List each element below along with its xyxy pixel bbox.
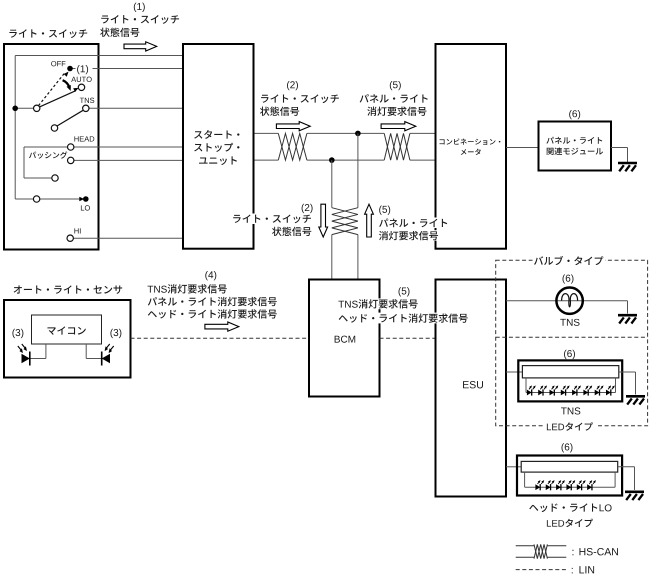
ground for panel light module	[618, 162, 637, 165]
TNS LED module outer box	[518, 360, 622, 401]
LED 4 of headlight module	[566, 484, 571, 490]
legend LIN dashed line	[516, 569, 567, 571]
LED 5 of headlight module	[577, 484, 582, 490]
combination meter box	[436, 44, 507, 249]
wire: switch common top line to start-stop unit	[15, 55, 182, 57]
HS-CAN twisted pair symbol left	[278, 133, 307, 160]
label headlight LO	[529, 503, 611, 512]
arrow (2) right	[276, 122, 310, 131]
wire: LO lever line	[37, 198, 80, 200]
wire: L-shape to lower passing terminal	[23, 147, 25, 178]
wire: TNS contact to start-stop unit	[86, 107, 183, 109]
start-stop unit box	[183, 44, 254, 249]
label (4) signals	[205, 271, 216, 280]
wire: ESU to TNS LED module	[506, 371, 522, 373]
label ESU	[463, 381, 483, 388]
OFF contact dot	[67, 66, 73, 72]
wire: passing contact to start-stop unit	[71, 159, 183, 161]
LED 7 of TNS module	[595, 390, 600, 396]
junction dot top line	[355, 131, 361, 137]
wire: HS-CAN top line	[255, 132, 279, 134]
second stage lever circle	[51, 125, 57, 131]
label TNS LED	[561, 407, 580, 414]
LED 1 of headlight module	[535, 484, 540, 490]
label LED type (on dashed edge)	[543, 421, 597, 432]
junction dot on left bus	[12, 106, 18, 112]
label BCM	[335, 336, 356, 343]
ESU box	[436, 280, 507, 497]
LED 8 of TNS module	[606, 390, 611, 396]
passing contact circle	[68, 157, 74, 163]
LED 3 of TNS module	[550, 390, 555, 396]
label (3) right	[110, 329, 121, 338]
switch lever: TNS second stage	[57, 110, 84, 126]
label (1) at OFF contact	[76, 63, 93, 74]
arrow (5) up	[365, 204, 374, 237]
label LO	[81, 205, 90, 210]
TNS bulb symbol	[556, 288, 582, 314]
auto light sensor box	[4, 300, 131, 378]
bulb filament	[562, 294, 578, 307]
label LED type below	[547, 519, 593, 527]
label (5) TNS off request signals	[399, 287, 410, 296]
LED 4 of TNS module	[561, 390, 566, 396]
wire: switch left vertical bus	[14, 56, 16, 200]
wire: HS-CAN vertical right	[357, 133, 359, 207]
label TNS bulb	[560, 319, 579, 326]
wire: bus to LO lever	[15, 198, 34, 200]
LED 6 of headlight module	[587, 484, 592, 490]
HI contact circle	[67, 235, 73, 241]
label (2) status signal down	[302, 204, 313, 213]
junction dot bottom line	[329, 157, 335, 163]
label (5) panel light off request signal	[390, 81, 401, 90]
BCM box	[309, 280, 380, 397]
wire: OFF contact to start-stop unit	[70, 68, 183, 70]
legend label HS-CAN	[572, 550, 573, 556]
headlight LED chain bus	[524, 472, 526, 487]
TNS LED driver inner box	[522, 366, 618, 378]
wire: HEAD contact line to start-stop unit	[24, 146, 183, 148]
headlight LED driver inner box	[521, 461, 618, 472]
label: light switch	[9, 29, 87, 38]
label (6) panel light module	[569, 110, 580, 119]
headlight LED module outer box	[517, 456, 622, 496]
label (5) panel light off request up	[379, 206, 390, 215]
wire: bus dot to pivot	[15, 107, 34, 109]
dashed box: bulb type / LED type	[496, 260, 648, 426]
arrow (5) right	[381, 122, 416, 131]
ground for TNS bulb	[618, 314, 637, 317]
arrowhead on dashed lever	[64, 72, 69, 77]
label (1) light switch status signal	[134, 3, 145, 12]
LO lever circle	[33, 196, 39, 202]
wire: ESU to TNS bulb and to ground	[506, 300, 628, 302]
label start-stop unit	[194, 130, 239, 139]
HS-CAN twisted pair symbol vertical	[332, 208, 358, 235]
LED 2 of TNS module	[538, 390, 543, 396]
panel light related module box	[539, 122, 612, 171]
switch lever: dashed to OFF	[39, 73, 65, 105]
LO contact dot	[83, 196, 89, 202]
wire: micom to right photodiode	[85, 344, 87, 359]
LED 6 of TNS module	[583, 390, 588, 396]
label AUTO	[71, 77, 91, 82]
label TNS	[80, 98, 94, 103]
legend HS-CAN symbol	[516, 545, 534, 547]
label bulb type (on dashed edge)	[533, 255, 606, 266]
wire: HI contact to start-stop unit	[70, 237, 182, 239]
LIN wire: sensor to BCM (dashed)	[131, 337, 309, 339]
label (6) TNS LED	[564, 350, 575, 359]
legend label LIN	[572, 568, 573, 574]
arrow (4) right	[205, 322, 239, 331]
LIN wire: BCM to ESU (dashed)	[380, 337, 436, 339]
label HI	[74, 228, 80, 233]
photodiode left	[22, 354, 30, 363]
label passing	[29, 151, 67, 158]
wire: micom to left photodiode	[45, 344, 47, 359]
pivot contact circle	[34, 105, 40, 111]
LED 2 of headlight module	[546, 484, 551, 490]
lower passing terminal circle	[52, 175, 58, 181]
wire: ESU to headlight LED module	[506, 466, 521, 468]
wire: module to ground	[611, 147, 628, 149]
TNS LED chain bus	[525, 378, 527, 393]
label OFF	[51, 61, 65, 66]
label HEAD	[74, 136, 94, 141]
wire: HS-CAN vertical left	[331, 160, 333, 208]
photodiode right	[102, 354, 110, 363]
arrowhead on solid lever	[73, 88, 78, 92]
label combination meter	[440, 138, 501, 144]
label (3) left	[12, 329, 23, 338]
wire: TNS LED module to ground	[619, 371, 636, 373]
TNS contact circle	[83, 105, 89, 111]
switch lever: solid to AUTO	[40, 91, 76, 107]
label auto light sensor	[14, 285, 123, 293]
arrow (2) down	[319, 204, 328, 237]
LED 5 of TNS module	[572, 390, 577, 396]
label (6) bulb	[563, 274, 574, 283]
microcomputer box	[32, 315, 102, 344]
arrow (1) right	[124, 42, 157, 51]
label microcomputer	[47, 326, 85, 334]
rotation arc arrow OFF to AUTO	[63, 80, 70, 88]
light switch unit box	[4, 44, 99, 250]
wire: meter to panel light module	[506, 147, 538, 149]
wire: headlight LED module to ground	[618, 466, 635, 468]
dashed divider between bulb and LED sections	[496, 336, 648, 338]
AUTO contact circle	[78, 84, 84, 90]
LED 1 of TNS module	[527, 390, 532, 396]
HEAD contact circle	[68, 144, 74, 150]
arrowhead on LO lever	[79, 197, 84, 201]
label (2) light switch status signal	[287, 81, 298, 90]
label (6) headlight LED	[562, 443, 573, 452]
wire: HS-CAN bottom line	[255, 159, 279, 161]
LED 3 of headlight module	[556, 484, 561, 490]
HS-CAN twisted pair symbol right	[384, 133, 410, 160]
